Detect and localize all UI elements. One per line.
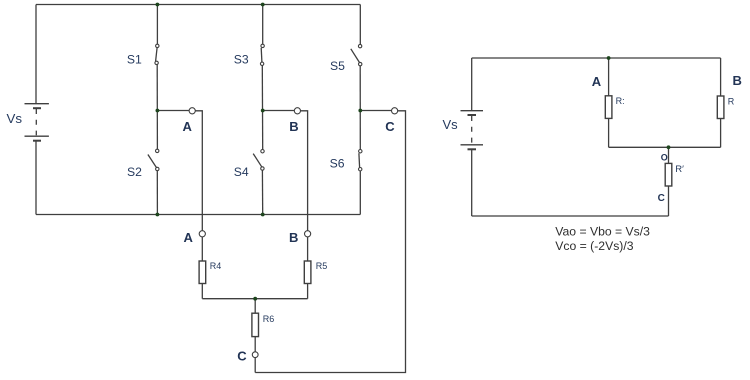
wire leg3 top segment: [359, 5, 361, 45]
wire A circle to R4: [201, 237, 203, 261]
svg-text:R5: R5: [316, 261, 328, 271]
wire star point horizontal: [202, 298, 307, 300]
wire leg1 top segment: [156, 5, 158, 45]
junction dot node C: [358, 109, 362, 113]
wire R to mid wire: [608, 118, 610, 147]
resistor R': [665, 163, 672, 186]
wire right battery bottom: [471, 150, 473, 216]
junction dot bottom rail leg1: [156, 213, 160, 217]
switch S1: [155, 44, 159, 64]
svg-text:S3: S3: [234, 53, 249, 67]
resistor R5: [304, 261, 311, 284]
junction dot top rail leg A right: [607, 56, 611, 60]
wire bottom rail right circuit: [472, 215, 669, 217]
svg-text:R: R: [728, 97, 735, 107]
wire node A branch: [157, 110, 189, 112]
wire star junction to R6: [254, 299, 256, 314]
switch S3: [260, 44, 264, 65]
wire C circle to bottom return: [254, 358, 256, 373]
svg-text:Vao = Vbo = Vs/3: Vao = Vbo = Vs/3: [555, 224, 650, 238]
svg-text:Vco = (-2Vs)/3: Vco = (-2Vs)/3: [555, 239, 633, 253]
resistor R4: [199, 261, 206, 284]
wire R to mid wire: [720, 119, 722, 148]
resistor R6: [252, 313, 259, 336]
wire leg A right circuit: [608, 58, 610, 96]
wire R4 to mid junction: [201, 284, 203, 299]
battery Vs (right): [461, 111, 484, 150]
svg-text:R6: R6: [263, 314, 275, 324]
node A terminal circle (upper): [189, 108, 195, 114]
switch S4: [253, 150, 264, 171]
wire leg1 bottom segment: [156, 171, 158, 215]
svg-text:S5: S5: [330, 59, 345, 73]
junction dot top rail leg1: [156, 3, 160, 7]
wire top rail right circuit: [472, 57, 721, 59]
switch S5: [351, 44, 362, 65]
wire node C branch: [360, 110, 391, 112]
svg-text:Vs: Vs: [7, 111, 23, 126]
wire node B corner down: [301, 111, 308, 231]
svg-text:S6: S6: [330, 157, 345, 171]
svg-text:B: B: [289, 230, 298, 245]
node B terminal circle (lower): [305, 231, 311, 237]
svg-text:C: C: [658, 193, 665, 204]
junction dot node O: [667, 145, 671, 149]
switch S6: [359, 150, 362, 171]
junction dot node B: [261, 109, 265, 113]
svg-text:O: O: [661, 153, 668, 163]
wire leg2 top segment: [262, 5, 264, 45]
switch S2: [148, 149, 159, 171]
svg-text:A: A: [592, 74, 602, 89]
junction dot star point: [253, 297, 257, 301]
svg-text:A: A: [184, 230, 194, 245]
wire B circle to R5: [307, 237, 309, 261]
svg-text:Vs: Vs: [443, 117, 459, 132]
junction dot node A: [156, 109, 160, 113]
junction dot bottom rail leg2: [261, 213, 265, 217]
wire leg2 bottom segment: [261, 170, 263, 214]
svg-text:C: C: [385, 119, 395, 134]
wire leg1 mid segment: [156, 65, 158, 150]
wire leg3 bottom segment: [359, 171, 361, 215]
junction dot top rail leg2: [261, 3, 265, 7]
wire junction O to R': [668, 147, 670, 163]
svg-text:S2: S2: [127, 165, 142, 179]
wire bottom rail left circuit: [36, 214, 360, 216]
wire R' down to bottom rail: [668, 186, 670, 216]
wire leg2 mid segment: [261, 66, 263, 150]
wire top rail left circuit: [36, 4, 360, 6]
resistor R (A leg): [605, 96, 612, 119]
node A terminal circle (lower): [199, 231, 205, 237]
svg-text:R4: R4: [210, 261, 222, 271]
resistor R (B leg): [717, 96, 724, 119]
node C terminal circle (upper): [392, 108, 398, 114]
svg-text:C: C: [237, 348, 247, 363]
svg-text:R′: R′: [675, 164, 684, 175]
wire mid horizontal right circuit: [609, 146, 721, 148]
svg-text:S4: S4: [234, 165, 249, 179]
svg-text:B: B: [733, 73, 742, 88]
wire right battery top: [471, 58, 473, 111]
node C terminal circle (lower): [252, 352, 258, 358]
svg-text:A: A: [183, 119, 193, 134]
svg-text:B: B: [289, 119, 298, 134]
wire R6 to C circle: [254, 337, 256, 352]
wire node B branch: [263, 110, 295, 112]
svg-text:R:: R:: [616, 96, 625, 106]
wire leg B right circuit: [720, 58, 722, 96]
wire leg3 mid segment: [359, 66, 361, 150]
wire R5 to mid junction: [307, 284, 309, 299]
node B terminal circle (upper): [294, 108, 300, 114]
wire node A corner down: [195, 111, 202, 231]
wire left side down to battery: [35, 5, 37, 104]
wire node C corner down right side: [255, 111, 405, 373]
wire battery bottom to bottom rail: [35, 142, 37, 215]
svg-text:S1: S1: [127, 53, 142, 67]
battery Vs (left): [25, 104, 49, 141]
